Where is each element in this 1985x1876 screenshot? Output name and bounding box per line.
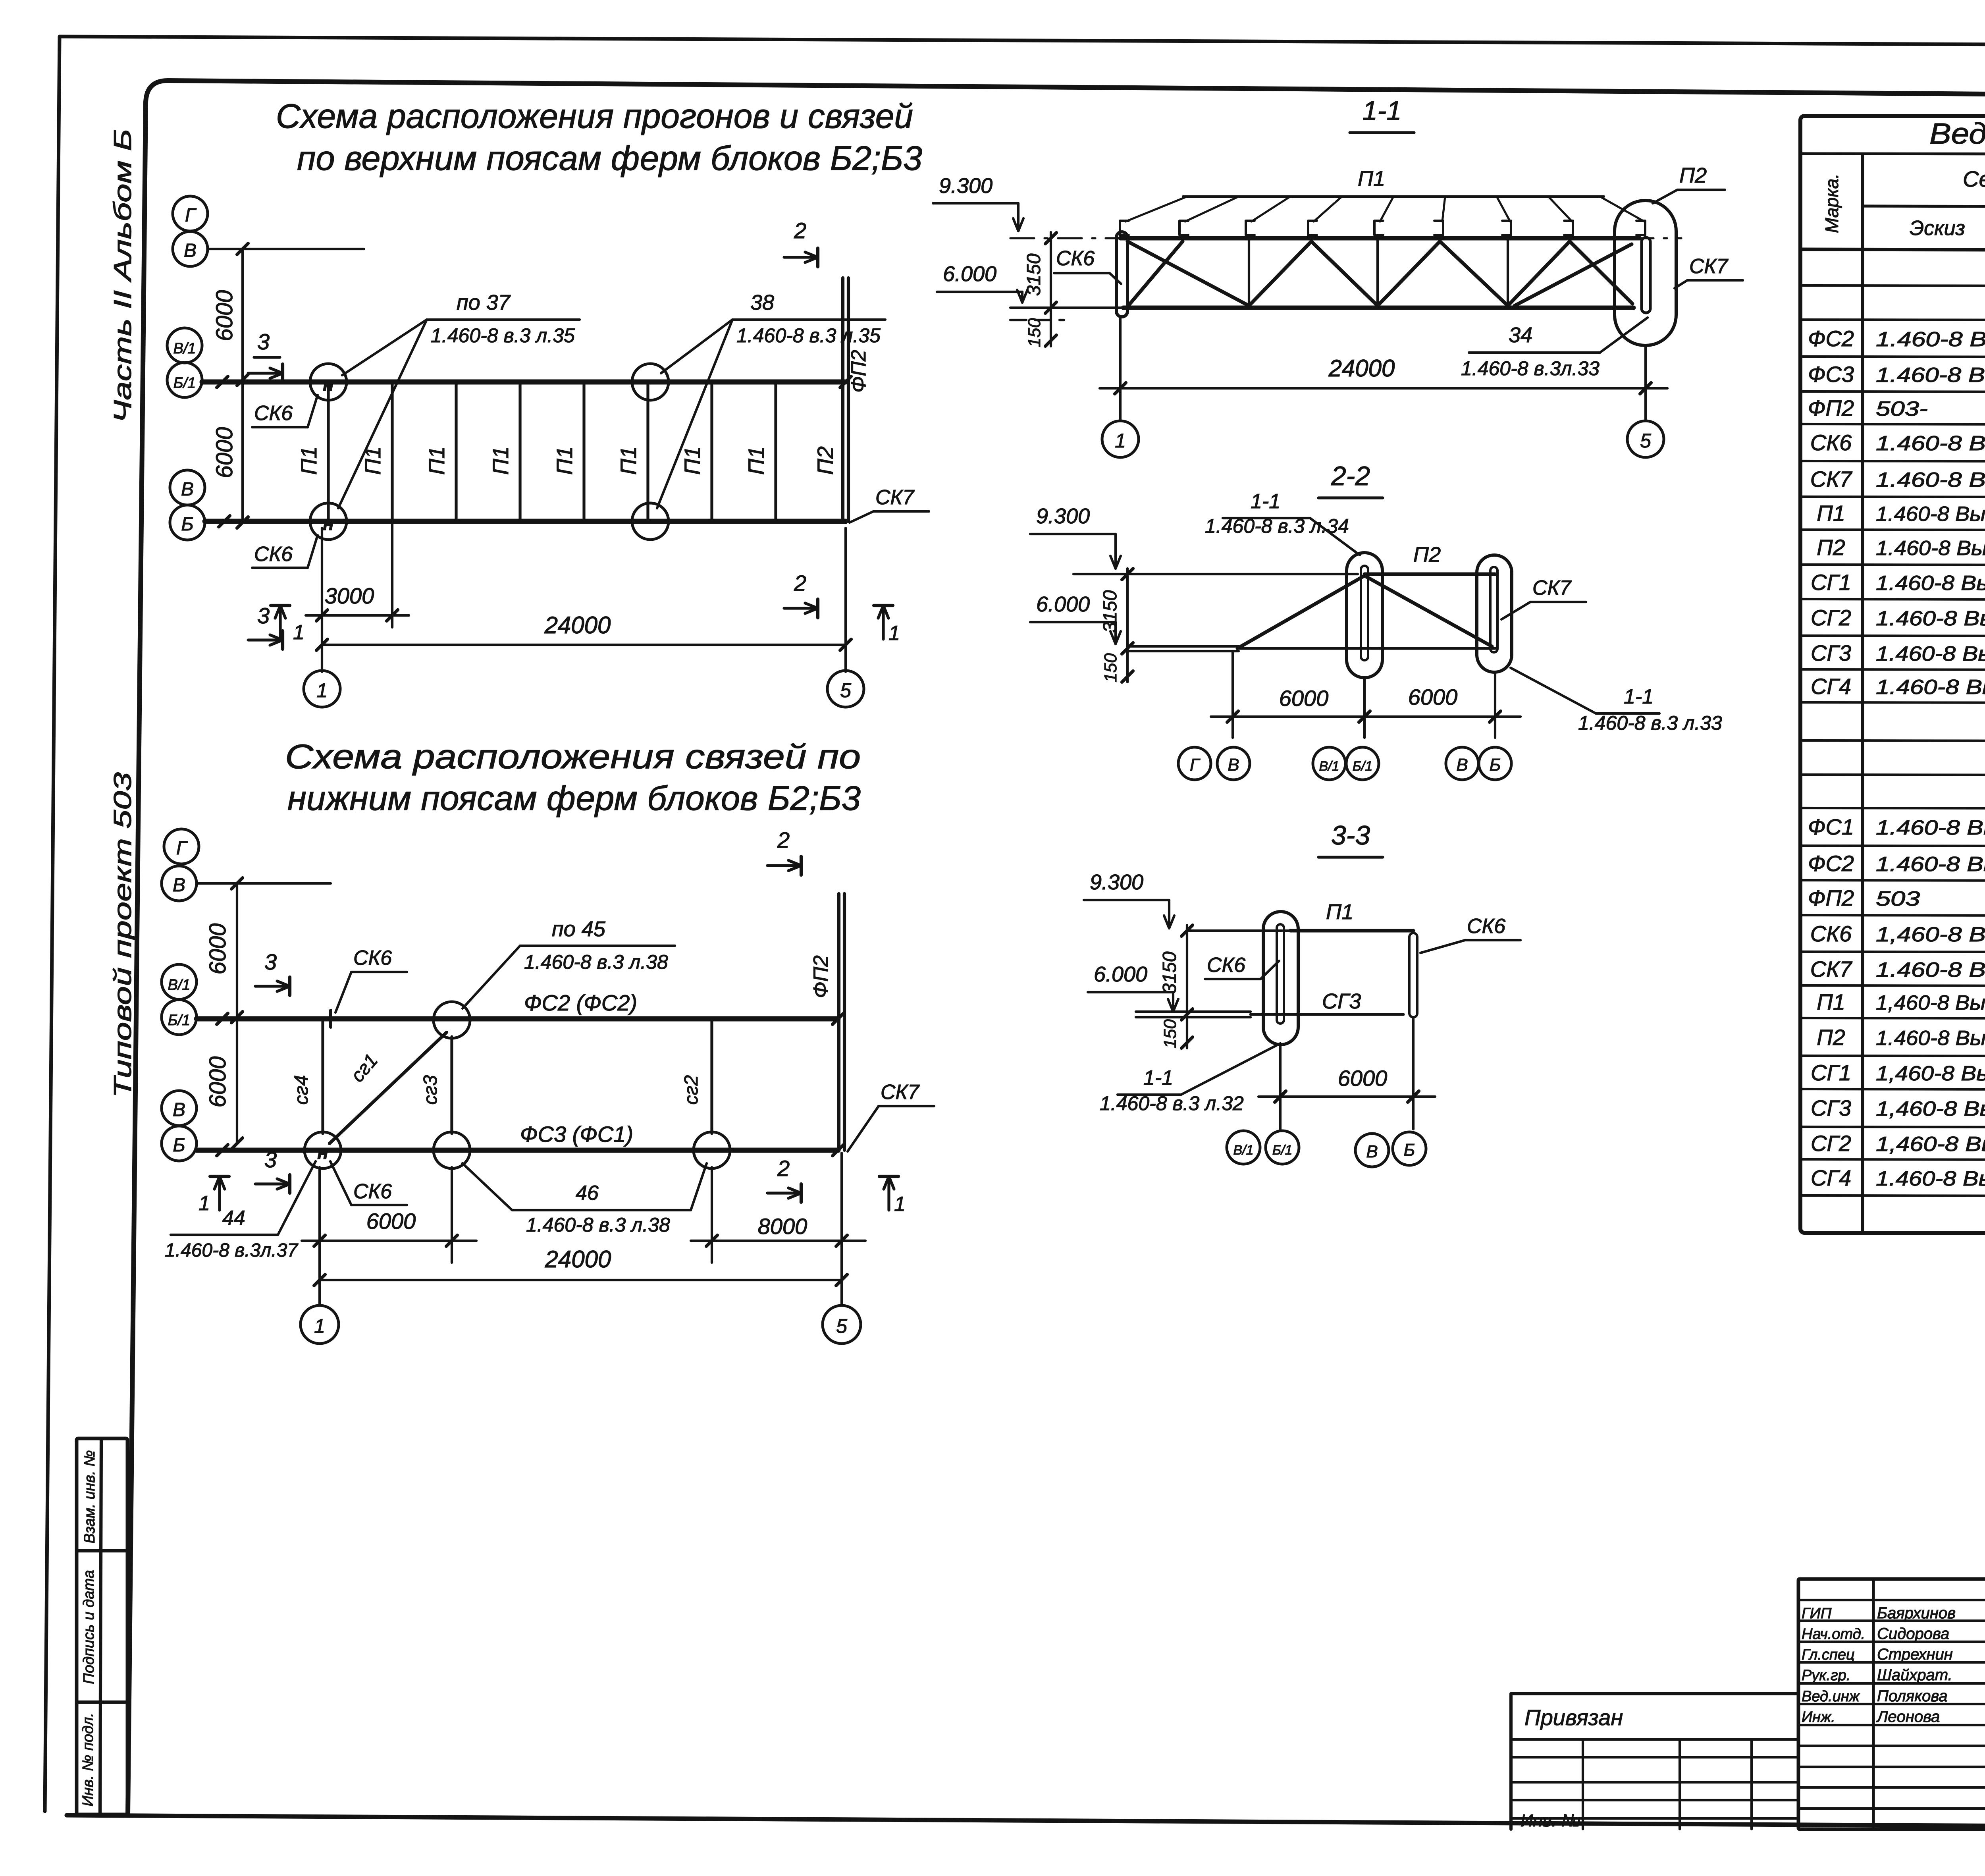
svg-text:3: 3	[264, 1147, 277, 1172]
grid circle 5 (scheme2)	[823, 1305, 861, 1344]
top line (section 2-2)	[1073, 573, 1358, 575]
svg-text:1: 1	[894, 1193, 906, 1216]
axis circle Б/1 (scheme2)	[162, 1000, 197, 1035]
table row lines	[1800, 285, 1985, 287]
svg-text:1.460-8 Вып.3 ,л.64; ГОСТ8278-: 1.460-8 Вып.3 ,л.64; ГОСТ8278-83 СЕ-2 (1…	[1876, 537, 1985, 560]
top line (section 3-3)	[1187, 929, 1290, 932]
axis line from В (scheme2)	[197, 882, 331, 885]
svg-text:3150: 3150	[1023, 253, 1045, 296]
right pill (section 2-2)	[1477, 555, 1512, 672]
svg-text:24000: 24000	[544, 612, 611, 638]
svg-text:сг3: сг3	[420, 1075, 441, 1105]
svg-text:1.460-8 Вып.3, л.61 Сд2ф (: 1.460-8 Вып.3, л.61 Сд2ф ( 1шт)	[1876, 676, 1985, 699]
svg-text:СГ4: СГ4	[1811, 1165, 1851, 1190]
svg-text:1.460-8 в.3 л.38: 1.460-8 в.3 л.38	[524, 951, 668, 973]
svg-text:2: 2	[777, 1156, 790, 1181]
svg-text:ФС3 (ФС1): ФС3 (ФС1)	[520, 1122, 633, 1147]
svg-text:Эскиз: Эскиз	[1910, 217, 1965, 240]
svg-text:1.460-8 в.3 л.35: 1.460-8 в.3 л.35	[736, 324, 881, 347]
привязан left edge	[1509, 1694, 1513, 1829]
bottom chord line Б	[205, 519, 846, 524]
svg-text:Схема расположения прогонов: Схема расположения прогонов и связей	[276, 97, 913, 135]
svg-text:1.460-8 Вып.3 л.61, Са2ф: 1.460-8 Вып.3 л.61, Са2ф (1шт)	[1876, 1167, 1985, 1190]
svg-text:сг4: сг4	[291, 1075, 312, 1105]
svg-text:2-2: 2-2	[1331, 461, 1370, 491]
axis circle В/1 (scheme2)	[162, 964, 197, 999]
svg-text:Г: Г	[176, 838, 188, 859]
svg-text:8000: 8000	[758, 1214, 807, 1239]
diagonal braces (section 2-2)	[1237, 576, 1364, 648]
grid circle 1 (section 1-1)	[1102, 421, 1139, 457]
svg-text:1-1: 1-1	[1143, 1066, 1173, 1089]
svg-text:В: В	[1456, 755, 1468, 775]
header column Марка	[1861, 155, 1864, 1233]
svg-text:П1: П1	[680, 446, 705, 475]
svg-text:Б/1: Б/1	[168, 1012, 190, 1029]
svg-text:1.460-8 Вып.3, л.61, СВ1т: 1.460-8 Вып.3, л.61, СВ1т (1шт)	[1876, 572, 1985, 595]
svg-text:П1: П1	[424, 446, 449, 475]
grid line 5 extension (scheme2)	[840, 1153, 843, 1305]
node circle 38 upper	[632, 364, 669, 400]
element table outer box	[1800, 116, 1985, 1233]
bottom line (section 2-2)	[1127, 645, 1239, 648]
svg-text:150: 150	[1101, 653, 1120, 683]
axis circle Г	[173, 196, 208, 231]
svg-text:Гл.спец: Гл.спец	[1802, 1647, 1855, 1663]
svg-text:1.460-8 в.3л.33: 1.460-8 в.3л.33	[1461, 357, 1600, 380]
node circle СГ3 bottom	[434, 1132, 470, 1168]
svg-text:1: 1	[316, 679, 328, 702]
section mark 1 left	[279, 605, 281, 639]
vertical dimension line scheme2	[236, 883, 238, 1143]
chord line Б/1 (scheme2)	[197, 1016, 838, 1022]
svg-text:Привязан: Привязан	[1524, 1705, 1623, 1730]
svg-text:150: 150	[1160, 1019, 1180, 1049]
bottom chord extension	[1010, 307, 1123, 309]
tie СГ2 vertical	[710, 1019, 713, 1134]
left pill inner plate (section 3-3)	[1277, 924, 1284, 1024]
signature table box	[1798, 1579, 1985, 1829]
привязан sub-table row lines	[1511, 1756, 1798, 1758]
svg-text:3: 3	[264, 949, 277, 974]
svg-text:3000: 3000	[325, 583, 374, 608]
svg-text:Часть II Альбом Б: Часть II Альбом Б	[109, 129, 137, 423]
purlin clips on top chord	[1120, 221, 1129, 235]
svg-text:5: 5	[836, 1315, 847, 1337]
svg-text:ФП2: ФП2	[1808, 885, 1854, 910]
svg-text:1,460-8 Вып.3, л.18, ССО-1: 1,460-8 Вып.3, л.18, ССО-1 (2шт)	[1876, 923, 1985, 946]
left margin strip box (Инв №, Подпись и дата, Взам.инв №)	[77, 1438, 127, 1814]
svg-text:ФС2: ФС2	[1808, 851, 1854, 876]
svg-text:1: 1	[198, 1192, 210, 1215]
svg-text:Вед.инж: Вед.инж	[1802, 1688, 1860, 1705]
tie СГ4 vertical	[321, 1019, 324, 1134]
svg-text:В: В	[1366, 1142, 1378, 1161]
svg-text:6000: 6000	[212, 427, 237, 478]
svg-text:Б/1: Б/1	[1353, 759, 1373, 774]
svg-text:Марка.: Марка.	[1821, 174, 1842, 233]
tie СГ1 diagonal	[330, 1032, 447, 1143]
svg-text:Стрехнин: Стрехнин	[1877, 1646, 1953, 1663]
svg-text:сг2: сг2	[681, 1075, 702, 1105]
svg-text:Б: Б	[181, 514, 193, 535]
vertical dimension line 6000+6000	[241, 249, 244, 523]
svg-text:1: 1	[888, 622, 900, 645]
axis circle Б	[170, 505, 205, 540]
svg-text:СК6: СК6	[254, 543, 293, 566]
svg-text:СК6: СК6	[1810, 430, 1852, 455]
svg-text:В: В	[1228, 755, 1239, 775]
axis circle Б (scheme2)	[162, 1126, 197, 1161]
axis line from В	[208, 248, 364, 250]
svg-text:по верхним поясам ферм бло: по верхним поясам ферм блоков Б2;Б3	[297, 139, 922, 177]
svg-text:1: 1	[1115, 430, 1126, 452]
svg-text:СК6: СК6	[1207, 954, 1245, 977]
svg-text:Б: Б	[1490, 755, 1501, 775]
svg-text:Баярхинов: Баярхинов	[1877, 1604, 1956, 1622]
svg-text:П1: П1	[1358, 167, 1385, 191]
svg-text:6000: 6000	[205, 923, 231, 974]
svg-text:3: 3	[257, 603, 270, 628]
section mark 1 right	[882, 605, 885, 639]
svg-text:24000: 24000	[1328, 355, 1395, 382]
svg-text:Б: Б	[1404, 1140, 1415, 1160]
svg-text:П2: П2	[1817, 535, 1845, 560]
signature table row lines	[1798, 1599, 1985, 1601]
left pill (section 3-3)	[1263, 912, 1298, 1045]
section mark 1 right (scheme2)	[887, 1176, 890, 1210]
svg-text:1,460-8 Вып.3, л.61, СВ1: 1,460-8 Вып.3, л.61, СВ1 (1шт)	[1876, 1133, 1985, 1156]
svg-text:2: 2	[777, 827, 790, 852]
svg-text:1,460-8 Вып.3 л.61, СВ1т: 1,460-8 Вып.3 л.61, СВ1т (1шт)	[1876, 1062, 1985, 1085]
svg-text:38: 38	[750, 291, 774, 314]
svg-text:3: 3	[257, 329, 270, 354]
purlin П1 verticals	[327, 382, 330, 521]
svg-text:1-1: 1-1	[1363, 96, 1401, 126]
svg-text:Схема расположения связей п: Схема расположения связей по	[285, 738, 861, 776]
table header band line	[1863, 206, 1985, 207]
left pill inner plate (section 2-2)	[1361, 566, 1368, 660]
table header bottom line	[1800, 249, 1985, 251]
svg-text:СГ1: СГ1	[1811, 570, 1851, 595]
svg-text:1.460-8 в.3 л.32: 1.460-8 в.3 л.32	[1100, 1092, 1244, 1114]
top chord line Б/1	[202, 380, 846, 385]
svg-text:44: 44	[222, 1207, 245, 1230]
svg-text:ФС3: ФС3	[1808, 362, 1854, 387]
node circle СГ3 top	[434, 1002, 470, 1038]
bottom chord (section 1-1)	[1123, 306, 1634, 310]
axis circle В (lower)	[170, 470, 205, 505]
svg-text:Инв. №: Инв. №	[1521, 1811, 1580, 1830]
svg-text:П1: П1	[552, 446, 577, 475]
svg-text:В: В	[181, 479, 194, 500]
svg-text:503- -КМ-37, СПФТ12-6: 503- -КМ-37, СПФТ12-68а (1шт)	[1876, 397, 1985, 420]
axis circles pairs (section 2-2)	[1178, 747, 1211, 780]
section mark 1 left (scheme2)	[218, 1176, 221, 1210]
svg-text:П1: П1	[1817, 501, 1845, 526]
svg-text:ФП2: ФП2	[809, 955, 833, 998]
svg-text:по 45: по 45	[552, 917, 606, 941]
svg-text:П1: П1	[488, 446, 513, 475]
svg-text:1.460-8 Вып.3, л.18, ССО-5: 1.460-8 Вып.3, л.18, ССО-5 (1шт)	[1876, 958, 1985, 981]
axis circle В/1	[167, 328, 202, 363]
svg-text:2: 2	[794, 218, 806, 243]
svg-text:1.460-8 Вып.3, л.18, ССО-5: 1.460-8 Вып.3, л.18, ССО-5 (1шт)	[1876, 469, 1985, 492]
sheet outer border	[60, 37, 1985, 47]
svg-text:Леонова: Леонова	[1876, 1708, 1940, 1726]
svg-text:2: 2	[794, 571, 806, 596]
svg-text:ФП2: ФП2	[847, 350, 870, 393]
height dim 3150/150 (section 3-3)	[1186, 925, 1188, 1048]
svg-text:В: В	[173, 1099, 185, 1120]
svg-text:П1: П1	[616, 446, 641, 475]
truss posts (section 1-1)	[1248, 240, 1250, 307]
svg-text:6000: 6000	[1279, 686, 1329, 711]
svg-text:6000: 6000	[366, 1209, 416, 1234]
svg-text:ФП2: ФП2	[1808, 395, 1854, 420]
svg-text:1.460-8 Вып.3, л.64, ГОСТ8278-: 1.460-8 Вып.3, л.64, ГОСТ8278-83; СЕ-2 (…	[1876, 1027, 1985, 1050]
П1 leaders to clips	[1125, 197, 1187, 222]
svg-text:6000: 6000	[212, 290, 237, 341]
svg-text:3150: 3150	[1100, 590, 1121, 632]
right pill inner plate (section 2-2)	[1490, 567, 1497, 652]
svg-text:1.460-8 Вып.3, л.64; ГОСТ8278-: 1.460-8 Вып.3, л.64; ГОСТ8278-83 ,СП-2 (…	[1876, 503, 1985, 526]
height dim 3150/150 (section 1-1)	[1050, 232, 1052, 346]
svg-text:СК6: СК6	[1056, 247, 1095, 270]
svg-text:ФС1: ФС1	[1808, 814, 1854, 839]
svg-text:Рук.гр.: Рук.гр.	[1802, 1667, 1850, 1684]
table title row line	[1800, 154, 1985, 155]
svg-text:П2: П2	[1817, 1025, 1845, 1050]
svg-text:1.460-8 в.3 л.33: 1.460-8 в.3 л.33	[1578, 712, 1722, 734]
svg-text:В/1: В/1	[173, 340, 196, 357]
svg-text:СК6: СК6	[1810, 921, 1852, 946]
svg-text:ФС2: ФС2	[1808, 326, 1854, 351]
svg-text:Взам. инв. №: Взам. инв. №	[81, 1450, 98, 1543]
chord line Б (scheme2)	[197, 1148, 838, 1153]
svg-text:Б: Б	[173, 1135, 185, 1156]
svg-text:СК6: СК6	[353, 947, 392, 970]
svg-text:Нач.отд.: Нач.отд.	[1802, 1626, 1865, 1643]
svg-text:6.000: 6.000	[1094, 962, 1147, 986]
axis circle Б/1	[167, 362, 202, 397]
right bar СК6 (section 3-3)	[1409, 933, 1417, 1017]
grid circle 5	[827, 671, 864, 707]
svg-text:СГ2: СГ2	[1811, 1131, 1851, 1156]
svg-text:СГ3: СГ3	[1811, 640, 1851, 665]
svg-text:СГ3: СГ3	[1811, 1095, 1851, 1120]
svg-text:1.460-8 в.3л.37: 1.460-8 в.3л.37	[165, 1240, 299, 1261]
extension lines (section 2-2)	[1231, 651, 1234, 738]
right end oval СК7 (section 1-1)	[1615, 201, 1676, 345]
svg-text:1,460-8 Вып.3, л.61, Сд2Р: 1,460-8 Вып.3, л.61, Сд2Р (1шт)	[1876, 1097, 1985, 1120]
top chord axis dash-dot	[1010, 237, 1681, 239]
node circle СГ4	[304, 1132, 341, 1168]
left support plate (section 1-1)	[1116, 232, 1127, 317]
svg-text:1.460-8 Вып.3 л.18, ССО-1: 1.460-8 Вып.3 л.18, ССО-1 (2шт)	[1876, 432, 1985, 455]
привязан box top line	[1511, 1692, 1798, 1695]
svg-text:П1: П1	[1326, 900, 1353, 924]
grid extension lines (section 1-1)	[1119, 318, 1122, 420]
grid circle 1 (scheme2)	[301, 1305, 339, 1344]
svg-text:6000: 6000	[1408, 684, 1458, 710]
svg-text:9.300: 9.300	[939, 174, 992, 198]
svg-text:П1: П1	[360, 446, 385, 475]
svg-text:В/1: В/1	[1319, 759, 1339, 774]
right end plate П2 (section 1-1)	[1642, 237, 1650, 313]
axis circle В lower (scheme2)	[162, 1091, 197, 1126]
top chord (section 1-1)	[1120, 236, 1640, 241]
svg-text:СГ1: СГ1	[1811, 1060, 1851, 1085]
svg-text:ФС2 (ФС2): ФС2 (ФС2)	[524, 990, 637, 1015]
svg-text:1.460-8 Вып.3 , л.46, СФТ24-2: 1.460-8 Вып.3 , л.46, СФТ24-2,80 (1шт)	[1876, 853, 1985, 876]
end element ФП2 double line	[841, 278, 844, 521]
node circle СК6 upper	[310, 364, 347, 400]
svg-text:24000: 24000	[545, 1246, 611, 1273]
svg-text:1.460-8 Вып.3, л.61, Сд2Р: 1.460-8 Вып.3, л.61, Сд2Р (1шт)	[1876, 642, 1985, 665]
svg-text:3-3: 3-3	[1331, 820, 1370, 850]
svg-text:3150: 3150	[1159, 951, 1180, 994]
left pill (section 2-2)	[1347, 553, 1382, 678]
node circle 38 lower	[632, 503, 669, 540]
svg-text:Сечение: Сечение	[1963, 166, 1985, 191]
svg-text:1.460-8 Вып.3, л.61, СВ1: 1.460-8 Вып.3, л.61, СВ1 (1шт)	[1876, 607, 1985, 630]
svg-text:150: 150	[1025, 318, 1044, 347]
node circle СК6 lower	[310, 503, 347, 540]
grid line 1 extension (scheme2)	[318, 1167, 321, 1305]
svg-text:П2: П2	[1413, 543, 1441, 567]
svg-text:н: н	[323, 513, 334, 534]
node circle СГ2 bottom	[694, 1132, 730, 1168]
svg-text:6000: 6000	[205, 1056, 231, 1107]
axis circles (section 3-3)	[1227, 1131, 1260, 1164]
svg-text:Б/1: Б/1	[1272, 1143, 1293, 1158]
height dim 3150/150 (section 2-2)	[1126, 569, 1129, 682]
grid circle 5 (section 1-1)	[1627, 421, 1664, 457]
svg-text:Подпись и дата: Подпись и дата	[81, 1570, 97, 1684]
svg-text:СК6: СК6	[353, 1180, 392, 1203]
svg-text:1.460-8 в.3 л.34: 1.460-8 в.3 л.34	[1205, 515, 1349, 537]
truss diagonals (section 1-1)	[1127, 241, 1249, 306]
svg-text:Сидорова: Сидорова	[1877, 1625, 1949, 1643]
svg-text:П2: П2	[813, 446, 838, 475]
svg-text:1.460-8 Вып.3 л.46, СФТ24-2,80: 1.460-8 Вып.3 л.46, СФТ24-2,80 (1шт)	[1876, 328, 1985, 351]
axis circle В (scheme2)	[162, 866, 197, 901]
svg-text:6.000: 6.000	[943, 262, 996, 286]
axis circle В	[173, 231, 208, 266]
svg-text:1-1: 1-1	[1251, 490, 1280, 513]
svg-text:СК6: СК6	[254, 402, 293, 425]
svg-text:Типовой проект 503: Типовой проект 503	[109, 772, 137, 1098]
svg-text:34: 34	[1509, 323, 1532, 347]
svg-text:9.300: 9.300	[1036, 504, 1090, 528]
svg-text:1.460-8 в.3 л.35: 1.460-8 в.3 л.35	[431, 324, 575, 347]
end element ФП2 (scheme2)	[837, 894, 840, 1150]
svg-text:В/1: В/1	[1233, 1143, 1253, 1158]
привязан sub-table column lines	[1582, 1739, 1584, 1829]
sheet bottom border line	[67, 1815, 1985, 1829]
svg-text:6000: 6000	[1338, 1066, 1388, 1091]
svg-text:1: 1	[293, 621, 304, 644]
svg-text:Б/1: Б/1	[173, 375, 196, 391]
svg-text:Ведомость элементов: Ведомость элементов	[1929, 117, 1985, 150]
svg-text:ГИП: ГИП	[1802, 1605, 1832, 1622]
svg-text:СК7: СК7	[875, 486, 915, 509]
svg-text:1: 1	[314, 1315, 325, 1337]
svg-text:Инж.: Инж.	[1802, 1709, 1835, 1726]
svg-text:В/1: В/1	[168, 977, 190, 993]
extension lines (section 3-3)	[1279, 1045, 1282, 1129]
svg-text:1.460-8 Вып.3 ,л.46, СФТ24-3,4: 1.460-8 Вып.3 ,л.46, СФТ24-3,45 (1шт)	[1876, 364, 1985, 387]
svg-text:по 37: по 37	[457, 291, 511, 314]
svg-text:Шайхрат.: Шайхрат.	[1877, 1666, 1952, 1684]
svg-text:Инв. № подл.: Инв. № подл.	[80, 1713, 96, 1807]
svg-text:СК7: СК7	[1810, 956, 1852, 981]
svg-text:9.300: 9.300	[1090, 870, 1143, 894]
svg-text:503 -КМ-37, СПФТ12-6: 503 -КМ-37, СПФТ12-68а (1шт)	[1876, 887, 1985, 910]
svg-text:1.460-8 в.3 л.38: 1.460-8 в.3 л.38	[526, 1214, 670, 1236]
svg-text:6.000: 6.000	[1036, 592, 1090, 616]
svg-text:Г: Г	[1190, 755, 1201, 775]
svg-text:46: 46	[576, 1182, 599, 1205]
signature table column lines	[1872, 1579, 1875, 1829]
svg-text:Полякова: Полякова	[1877, 1687, 1948, 1705]
svg-text:СГ3: СГ3	[1322, 989, 1361, 1013]
svg-text:н: н	[323, 374, 334, 395]
axis circle Г (scheme2)	[164, 829, 199, 864]
svg-text:1.460-8 Вып.3 , л.46, СФТ24-1: 1.460-8 Вып.3 , л.46, СФТ24-1,85 (1шт)	[1876, 816, 1985, 839]
svg-text:нижним поясам ферм блоков: нижним поясам ферм блоков Б2;Б3	[287, 779, 861, 817]
svg-text:СК7: СК7	[881, 1081, 920, 1104]
svg-text:СК7: СК7	[1689, 255, 1729, 278]
svg-text:В: В	[173, 875, 185, 896]
svg-text:В: В	[184, 240, 197, 261]
connection mark н on Б/1	[329, 1010, 332, 1027]
svg-text:5: 5	[840, 679, 851, 702]
svg-text:П1: П1	[296, 446, 321, 475]
svg-text:5: 5	[1640, 430, 1651, 452]
svg-text:СГ4: СГ4	[1811, 674, 1851, 699]
svg-text:СК6: СК6	[1467, 915, 1505, 938]
svg-text:П1: П1	[744, 446, 769, 475]
svg-text:сг1: сг1	[347, 1050, 382, 1086]
tie П1 (section 3-3)	[1290, 929, 1413, 933]
svg-text:П2: П2	[1679, 164, 1707, 187]
svg-text:СК7: СК7	[1810, 467, 1852, 492]
svg-text:н: н	[317, 1142, 328, 1163]
svg-text:Г: Г	[185, 205, 197, 226]
bottom line (section 3-3)	[1136, 1010, 1251, 1013]
svg-text:СГ2: СГ2	[1811, 605, 1851, 630]
svg-text:СК7: СК7	[1532, 576, 1572, 600]
П1 callout line (section 1-1)	[1183, 195, 1604, 198]
grid circle 1	[304, 671, 340, 707]
tie СГ3 vertical	[450, 1037, 453, 1134]
svg-text:1,460-8 Вып.3 ,л.64; ГОСТ8278-: 1,460-8 Вып.3 ,л.64; ГОСТ8278-83; СП-2 (…	[1876, 991, 1985, 1014]
привязан row bottom line	[1511, 1738, 1798, 1741]
tie П2 (section 2-2)	[1364, 573, 1495, 576]
svg-text:1-1: 1-1	[1624, 685, 1654, 708]
svg-text:П1: П1	[1817, 989, 1845, 1014]
